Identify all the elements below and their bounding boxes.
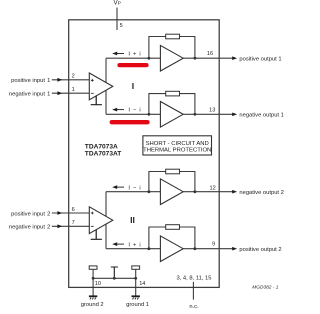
svg-text:positive output 2: positive output 2 [239, 247, 281, 253]
junction dot feedback tap 9 [148, 247, 151, 250]
wire negative input 2 (pin 7) [52, 225, 90, 227]
svg-text:negative input 2: negative input 2 [9, 225, 50, 231]
arrowhead output 13 [232, 113, 237, 117]
wire positive input 1 (pin 2) [52, 79, 90, 81]
wire positive input 2 (pin 6) [52, 212, 90, 214]
IC outline box [69, 20, 220, 288]
substrate tap symbol [111, 267, 118, 278]
svg-text:positive input 2: positive input 2 [11, 211, 50, 217]
svg-text:I: I [132, 81, 134, 91]
arrowhead input 1- [57, 91, 62, 95]
wire pin 14 to ground [135, 269, 137, 296]
svg-text:7: 7 [72, 220, 75, 226]
svg-text:10: 10 [95, 281, 101, 287]
svg-text:9: 9 [212, 242, 215, 248]
junction dot feedback tap 13 [148, 113, 151, 116]
current arrow I-i (top, channel II) [116, 186, 124, 188]
red highlight bar 2 [112, 120, 148, 124]
feedback loop buffer 13 [149, 94, 195, 115]
svg-text:SHORT - CIRCUIT AND: SHORT - CIRCUIT AND [146, 141, 209, 147]
wire n.c. lead [192, 282, 194, 300]
svg-text:I + i: I + i [128, 242, 141, 248]
svg-text:13: 13 [209, 108, 215, 114]
svg-text:negative output 1: negative output 1 [239, 113, 283, 119]
svg-text:6: 6 [72, 207, 75, 213]
svg-text:1: 1 [72, 87, 75, 93]
current arrow I-i (bottom, channel I) [116, 109, 124, 111]
ground symbol 2 [89, 295, 97, 297]
svg-text:positive input 1: positive input 1 [11, 78, 50, 84]
internal ground net wire [93, 277, 136, 279]
svg-text:12: 12 [209, 185, 215, 191]
power amp A3 (output buffer pin 12) [160, 179, 183, 205]
resistor R2 (feedback buffer 13) [166, 91, 180, 96]
wire output 9 [183, 248, 233, 250]
resistor R3 (feedback buffer 12) [166, 169, 180, 174]
junction dot feedback join 9 [194, 247, 197, 250]
junction dot feedback tap 12 [148, 190, 151, 193]
ground of op-amp I [91, 96, 102, 105]
wire output 12 [183, 191, 233, 193]
svg-text:ground 1: ground 1 [126, 302, 149, 308]
feedback loop buffer 12 [149, 172, 195, 192]
wire loop channel II (left vertical splitter) [105, 192, 107, 249]
svg-text:5: 5 [120, 23, 123, 29]
svg-text:I − i: I − i [128, 185, 141, 191]
wire negative input 1 (pin 1) [52, 92, 90, 94]
svg-text:3, 4, 8, 11, 15: 3, 4, 8, 11, 15 [176, 275, 211, 281]
arrowhead input 1+ [57, 78, 62, 82]
wire channel I bottom rail to buffer 13 [106, 113, 160, 115]
svg-text:I − i: I − i [128, 108, 141, 114]
wire output 16 [183, 57, 233, 59]
svg-text:2: 2 [72, 74, 75, 80]
junction dot pin14 net [134, 277, 137, 280]
ground of op-amp II [91, 230, 102, 240]
svg-text:negative input 1: negative input 1 [9, 92, 50, 98]
svg-text:I + i: I + i [128, 52, 141, 58]
svg-text:MGD382 - 1: MGD382 - 1 [252, 284, 278, 290]
junction dot feedback join 13 [194, 113, 197, 116]
current arrow I+i (bottom, channel II) [116, 243, 124, 245]
svg-text:positive output 1: positive output 1 [239, 56, 281, 62]
power amp A2 (output buffer pin 13) [160, 102, 183, 128]
wire channel II bottom rail to buffer 9 [106, 248, 160, 250]
junction dot feedback join 12 [194, 190, 197, 193]
wire channel II top rail to buffer 12 [106, 191, 160, 193]
arrowhead input 2- [57, 224, 62, 228]
svg-text:THERMAL PROTECTION: THERMAL PROTECTION [143, 147, 211, 153]
junction dot substrate net [113, 277, 116, 280]
wire pin 10 to ground [92, 269, 94, 296]
minus sign op-amp I [91, 92, 94, 94]
junction dot feedback tap 16 [148, 57, 151, 60]
wire channel I top rail to buffer 16 [106, 57, 160, 59]
feedback loop buffer 16 [149, 37, 195, 59]
protection block [143, 136, 212, 155]
svg-text:ground 2: ground 2 [81, 302, 104, 308]
svg-text:negative output 2: negative output 2 [239, 190, 283, 196]
svg-text:TDA7073AT: TDA7073AT [85, 150, 122, 157]
svg-text:VP: VP [114, 0, 121, 7]
red highlight bar 1 [120, 63, 147, 67]
op-amp U1 (input amplifier channel I) [89, 73, 113, 100]
op-amp U2 (input amplifier channel II) [89, 207, 113, 234]
pin 14 pad [132, 266, 140, 269]
wire loop channel I (left vertical splitter) [105, 58, 107, 114]
Vp supply lead (pin 5 wire) [116, 8, 118, 31]
arrowhead output 9 [232, 247, 237, 251]
ground symbol 1 [132, 295, 140, 297]
svg-text:16: 16 [207, 51, 213, 57]
resistor R4 (feedback buffer 9) [166, 225, 180, 230]
plus sign op-amp II [91, 212, 94, 215]
svg-text:TDA7073A: TDA7073A [85, 143, 118, 150]
resistor R1 (feedback buffer 16) [166, 34, 180, 39]
feedback loop buffer 9 [149, 227, 195, 249]
plus sign op-amp I [91, 79, 94, 82]
power amp A1 (output buffer pin 16) [160, 45, 183, 71]
arrowhead output 12 [232, 190, 237, 194]
wire output 13 [183, 113, 233, 115]
svg-text:n.c.: n.c. [189, 304, 199, 310]
arrowhead output 16 [232, 56, 237, 60]
current arrow I+i (top, channel I) [116, 53, 124, 55]
pin 10 pad [89, 266, 97, 269]
svg-text:II: II [130, 215, 135, 225]
minus sign op-amp II [91, 225, 94, 227]
arrowhead input 2+ [57, 211, 62, 215]
svg-text:14: 14 [139, 281, 145, 287]
junction dot feedback join 16 [194, 57, 197, 60]
power amp A4 (output buffer pin 9) [160, 236, 183, 262]
junction dot pin10 net [92, 277, 95, 280]
